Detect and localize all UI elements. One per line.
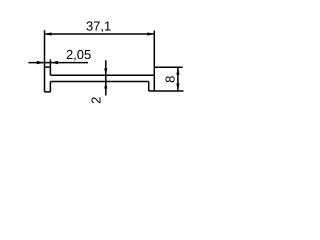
arrowhead 8 bottom (pointing down) xyxy=(176,84,179,92)
dimension line 2 (vertical, web thickness) xyxy=(105,60,107,95)
svg-text:2: 2 xyxy=(89,97,104,104)
web top line xyxy=(50,74,154,76)
tab bottom xyxy=(45,91,51,93)
extension line left (37,1) / profile left tab left edge xyxy=(44,30,46,92)
bar bottom line xyxy=(149,90,184,92)
dimension line 37,1 xyxy=(45,33,155,35)
arrowhead 2,05 right (outside, pointing left) xyxy=(50,61,58,64)
arrowhead 37,1 right xyxy=(147,32,154,35)
dimension line 8 (vertical, bar height) xyxy=(177,67,179,91)
bar top line xyxy=(154,66,182,68)
svg-text:8: 8 xyxy=(163,76,178,83)
step stub down to bar bottom xyxy=(148,82,150,92)
web bottom line xyxy=(50,81,148,83)
svg-text:37,1: 37,1 xyxy=(86,18,111,33)
extension line right (37,1) / right bar left edge xyxy=(153,31,155,91)
svg-text:2,05: 2,05 xyxy=(66,47,91,62)
dimension line 2,05 xyxy=(28,62,88,64)
arrowhead 8 top (pointing up) xyxy=(176,67,179,75)
arrowhead 2,05 left (outside, pointing right) xyxy=(37,61,45,64)
arrowhead 37,1 left xyxy=(45,32,52,35)
arrowhead 2 top (pointing down to web top) xyxy=(104,68,107,75)
tab right lower edge xyxy=(49,82,51,92)
extension line right (2,05) / tab right upper edge xyxy=(49,59,51,75)
tab top xyxy=(45,66,51,68)
arrowhead 2 bottom (pointing up to web bottom) xyxy=(104,82,107,89)
